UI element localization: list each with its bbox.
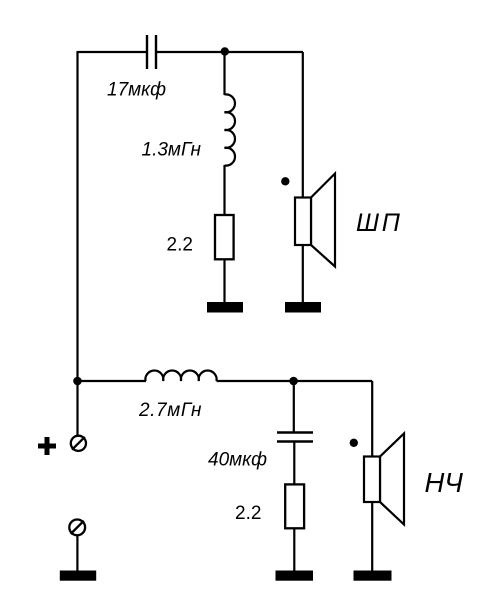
speaker НЧ — [364, 434, 404, 525]
label plus sign — [38, 437, 56, 455]
wire junction to inductor — [223, 52, 225, 95]
node junction top — [221, 47, 229, 55]
svg-text:1.3мГн: 1.3мГн — [142, 140, 202, 161]
svg-text:2.2: 2.2 — [235, 503, 261, 524]
wire inductor to resistor — [223, 165, 225, 216]
svg-text:ШП: ШП — [356, 209, 403, 237]
wire mid rail to inductor — [78, 380, 147, 382]
wire terminal minus to ground — [76, 536, 78, 572]
wire top rail left segment — [78, 51, 147, 53]
svg-text:НЧ: НЧ — [425, 467, 464, 498]
svg-text:2.2: 2.2 — [167, 235, 193, 256]
svg-text:17мкф: 17мкф — [107, 80, 166, 101]
wire НЧ branch down — [371, 381, 373, 457]
capacitor 40мкф — [277, 433, 313, 442]
resistor 2.2 (bottom) — [285, 484, 304, 528]
speaker ШП — [295, 174, 335, 267]
inductor 2.7мГн — [145, 371, 216, 381]
ground under resistor 2.2 bottom — [276, 571, 314, 581]
wire ШП to ground — [302, 245, 304, 303]
ground under ШП — [285, 302, 321, 313]
wire НЧ to ground — [371, 502, 373, 572]
terminal plus — [71, 436, 86, 451]
svg-text:40мкф: 40мкф — [208, 450, 267, 471]
wire junction to capacitor — [293, 381, 295, 432]
node polarity dot ШП — [281, 177, 289, 185]
wire mid rail right segment — [217, 380, 373, 382]
ground under resistor 2.2 top — [207, 302, 243, 313]
wire top rail right segment — [157, 51, 303, 53]
wire ШП branch down — [302, 52, 304, 198]
node junction mid right — [289, 377, 298, 386]
wire resistor to ground — [223, 259, 225, 303]
node polarity dot НЧ — [350, 439, 358, 447]
wire left rail vertical — [76, 51, 78, 436]
ground under НЧ — [354, 571, 392, 581]
wire capacitor to resistor — [293, 443, 295, 486]
svg-text:2.7мГн: 2.7мГн — [138, 400, 202, 421]
inductor 1.3мГн — [225, 94, 235, 165]
capacitor 17мкф — [147, 35, 156, 69]
resistor 2.2 (top) — [215, 215, 234, 259]
ground bottom left — [60, 571, 96, 581]
wire resistor to ground bottom — [293, 528, 295, 572]
node junction left mid — [73, 377, 82, 386]
terminal minus — [69, 520, 85, 536]
